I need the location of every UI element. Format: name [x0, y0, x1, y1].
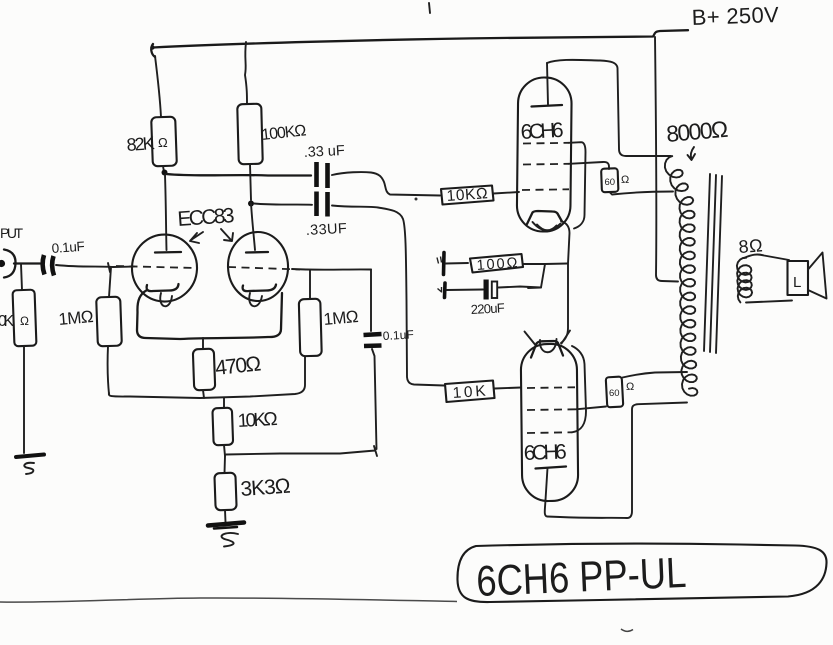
svg-text:8000Ω: 8000Ω [665, 116, 729, 147]
svg-text:Ω: Ω [20, 314, 29, 328]
ground 3K3 [208, 523, 244, 547]
node junction dot 82K/plate/.33uF [162, 170, 168, 176]
capacitor 0.1uF feedback [364, 270, 415, 450]
wire jack junction down to input resistor [21, 264, 22, 290]
svg-text:6CH6: 6CH6 [520, 119, 564, 144]
svg-text:PUT: PUT [0, 225, 23, 241]
svg-text:B+ 250V: B+ 250V [691, 2, 779, 30]
wire g3 tie to cathode [569, 142, 586, 228]
resistor 3K3 [214, 456, 291, 522]
upper 6CH6 label [520, 119, 564, 144]
svg-text:60: 60 [609, 388, 620, 399]
resistor 100K [237, 42, 307, 200]
node B+ label 250V [691, 2, 779, 30]
page line bottom left [0, 598, 457, 602]
svg-text:6CH6: 6CH6 [523, 441, 567, 465]
svg-text:0K: 0K [0, 313, 15, 330]
wire B+ feed down to transformer center tap [655, 37, 678, 282]
arrow to right triode [221, 229, 233, 241]
svg-text:10KΩ: 10KΩ [237, 409, 278, 432]
node junction dot 100K/plate/.33uF [248, 201, 254, 207]
svg-text:10K: 10K [452, 383, 487, 402]
svg-text:1MΩ: 1MΩ [323, 307, 360, 329]
wire B+ top rail [150, 30, 688, 57]
resistor 82K [126, 56, 177, 172]
lower 6CH6 cathode [525, 331, 571, 358]
resistor 60 screen-stopper upper [569, 162, 673, 195]
capacitor 220uF cathode bypass [438, 280, 542, 317]
svg-text:1MΩ: 1MΩ [58, 307, 95, 329]
svg-text:.33 uF: .33 uF [303, 143, 345, 161]
lower 6CH6 g3 (dashed) [527, 431, 572, 434]
svg-text:3K3Ω: 3K3Ω [240, 475, 291, 501]
wire right grid to 1M and 0.1uF [292, 268, 371, 271]
svg-text:.33UF: .33UF [305, 221, 347, 239]
lower 6CH6 g2 screen (dashed) [527, 408, 576, 411]
upper 6CH6 g2 screen (dashed) [523, 163, 569, 166]
resistor 100 cathode bias [437, 253, 568, 289]
svg-text:100KΩ: 100KΩ [261, 122, 308, 144]
tube ECC83 label [177, 204, 235, 231]
upper 6CH6 g3 (dashed) [523, 142, 569, 145]
resistor 470 [193, 338, 262, 398]
svg-text:470Ω: 470Ω [214, 352, 262, 380]
resistor 1M right [299, 270, 359, 356]
capacitor 0.1uF input [43, 239, 86, 276]
left triode grid (dashed) [116, 266, 195, 268]
capacitor .33uF upper [166, 143, 440, 196]
svg-text:220uF: 220uF [470, 300, 505, 317]
wire 10K/3K3 junction to 0.1uF [226, 446, 377, 456]
lower 6CH6 label [523, 441, 567, 465]
upper 6CH6 plate [532, 63, 563, 107]
svg-text:Ω: Ω [621, 174, 629, 186]
left triode plate [155, 175, 181, 253]
upper 6CH6 cathode [527, 211, 562, 230]
wire g3 tie to cathode lower [572, 346, 586, 432]
svg-text:6CH6 PP-UL: 6CH6 PP-UL [475, 549, 687, 606]
wire g2 to screen stopper lower [576, 407, 606, 410]
resistor input 0K [0, 290, 36, 453]
right triode grid (dashed) [228, 267, 300, 270]
input jack [0, 250, 16, 278]
wire secondary bottom to speaker [746, 301, 792, 303]
arrow to left triode [190, 232, 203, 243]
wire cathode-bus of ECC83 pair [137, 290, 282, 339]
transformer secondary winding [737, 258, 752, 303]
svg-text:100Ω: 100Ω [476, 255, 518, 274]
resistor 10K grid-stopper upper [441, 185, 519, 205]
right triode plate [246, 203, 268, 253]
title text 6CH6 PP-UL [475, 549, 687, 606]
resistor 10K grid-stopper lower [445, 381, 521, 403]
speaker [788, 253, 827, 299]
transformer core [704, 174, 722, 353]
stray dot near 10K [415, 198, 418, 201]
svg-text:60: 60 [605, 177, 616, 188]
lower 6CH6 plate [536, 467, 567, 501]
upper 6CH6 g1 (dashed) [522, 188, 569, 191]
title box [457, 544, 826, 602]
svg-text:8Ω: 8Ω [738, 235, 763, 257]
ground input [16, 455, 44, 475]
capacitor .33uF lower [254, 192, 444, 386]
svg-text:ECC83: ECC83 [177, 204, 235, 231]
transformer primary label 8000 ohm [665, 116, 729, 160]
lower 6CH6 g1 (dashed) [527, 386, 575, 389]
tube ECC83 right triode envelope [227, 231, 289, 302]
resistor 60 screen-stopper lower [606, 372, 687, 407]
wire bottom bus joining 1M pair and 470 [109, 357, 305, 398]
wire input jack to coupling cap [14, 262, 40, 264]
wire upper plate to transformer primary top [547, 60, 671, 156]
resistor 10K middle [212, 398, 278, 456]
stray mark bottom [621, 629, 633, 631]
stray tick top center [429, 3, 430, 13]
resistor 1M left [58, 263, 122, 394]
transformer primary winding 8000 ohm [665, 156, 698, 396]
svg-text:Ω: Ω [158, 135, 168, 150]
wire shared cathode line of 6CH6 pair [561, 221, 570, 343]
tube ECC83 left triode envelope [130, 233, 198, 303]
svg-text:10KΩ: 10KΩ [446, 185, 488, 205]
tube 6CH6 upper envelope [517, 77, 572, 232]
left triode cathode [147, 284, 179, 306]
svg-text:0.1uF: 0.1uF [51, 239, 85, 256]
svg-text:Ω: Ω [626, 381, 634, 393]
right triode cathode [243, 285, 276, 307]
wire secondary top to speaker [744, 254, 789, 260]
tube 6CH6 lower envelope [521, 344, 579, 502]
svg-text:82K: 82K [126, 133, 155, 155]
wire cap to left grid [56, 265, 134, 267]
node INPUT label [0, 225, 23, 241]
svg-text:0.1uF: 0.1uF [382, 327, 414, 343]
svg-text:L: L [793, 274, 801, 291]
wire lower plate to transformer primary bottom [545, 403, 687, 519]
secondary label 8 ohm [738, 235, 763, 257]
